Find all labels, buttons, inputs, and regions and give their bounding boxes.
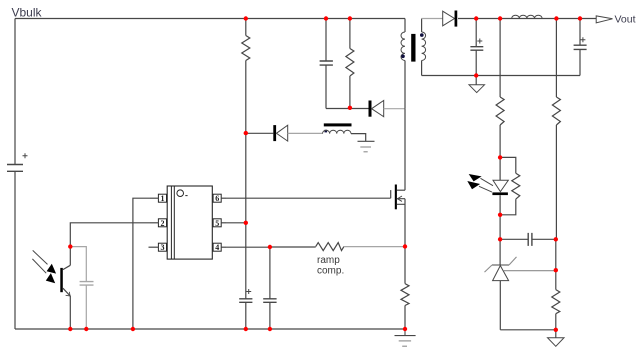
transformer T1 primary: [401, 19, 405, 109]
transformer T1 secondary: [420, 19, 443, 76]
node pin4 cap: [268, 245, 272, 249]
node bottom rail sense: [403, 327, 407, 331]
capacitor Cout1: [470, 19, 483, 76]
TL431 U3: [485, 239, 556, 329]
optocoupler U2 phototransistor: [32, 247, 70, 329]
wire LED to comp node: [499, 215, 501, 240]
node bottom rail cvcc: [244, 327, 248, 331]
wire pin2 to opto: [70, 223, 150, 247]
node bottom rail pin1: [131, 327, 135, 331]
wire TL431 anode bottom: [500, 329, 556, 331]
resistor Rsense: [401, 247, 409, 330]
diode Dout: [443, 11, 597, 27]
inductor Lout: [512, 15, 542, 18]
capacitor Cvcc: [239, 289, 252, 329]
ground primary main: [395, 329, 416, 346]
resistor Rsnub: [346, 19, 354, 109]
node bottom rail opto e: [68, 327, 72, 331]
node ramp right: [403, 244, 407, 248]
IC U1 pin 2 box: [150, 219, 167, 227]
wire drain vertical: [404, 109, 406, 191]
resistor Rstartup: [242, 19, 250, 134]
svg-text:3: 3: [161, 243, 165, 252]
transformer T1 core: [411, 34, 415, 62]
node bottom rail cpin4: [268, 327, 272, 331]
wire Vcc vertical low: [245, 223, 247, 299]
ground aux: [358, 141, 375, 152]
capacitor Ccomp: [500, 233, 556, 246]
node tl431 cathode: [498, 237, 502, 241]
capacitor Cbulk: [7, 153, 28, 171]
node top rail rsnub: [348, 16, 352, 20]
node snubber bottom: [348, 106, 352, 110]
node vout rail 3: [554, 16, 558, 20]
node vout rail 2: [498, 16, 502, 20]
opto LED U2: [467, 157, 508, 214]
diode D3 clamp: [370, 101, 405, 117]
node comp cap right: [554, 237, 558, 241]
node led bottom: [498, 213, 502, 217]
IC U1 body: [167, 186, 212, 259]
IC U1 pin 3 box: [149, 243, 167, 251]
node opto top: [68, 244, 72, 248]
wire Vcc vertical mid: [245, 133, 247, 223]
resistor Rled series upper: [496, 19, 504, 158]
wire secondary return rail: [422, 75, 580, 77]
MOSFET Q1: [391, 185, 405, 247]
resistor Rdiv upper: [552, 19, 560, 240]
wire left bulk vertical top: [14, 19, 16, 165]
svg-text:5: 5: [215, 219, 219, 228]
svg-text:comp.: comp.: [317, 266, 344, 277]
node pin5 vcc: [244, 221, 248, 225]
IC U1 pin 5 box: [213, 219, 226, 227]
node rdiv bottom: [554, 328, 558, 332]
svg-text:6: 6: [215, 194, 219, 203]
wire snubber bottom: [326, 108, 369, 110]
IC U1 pin 6 box: [213, 194, 226, 202]
wire pin1 to bottom rail: [133, 198, 150, 329]
svg-text:4: 4: [215, 243, 219, 252]
node vout rail 1: [474, 16, 478, 20]
svg-text:Vbulk: Vbulk: [12, 6, 43, 20]
ground sec triangle 2: [548, 330, 565, 347]
capacitor Csnub: [320, 19, 333, 109]
capacitor Copto: [70, 247, 93, 329]
svg-text:1: 1: [161, 194, 165, 203]
diode D2 aux rectifier: [246, 125, 323, 141]
node top rail vcc: [244, 16, 248, 20]
wire left bulk vertical bottom: [14, 171, 16, 329]
node aux diode: [244, 131, 248, 135]
node led top: [498, 155, 502, 159]
transformer T1 aux winding: [323, 123, 366, 141]
node top rail csnub: [324, 16, 328, 20]
svg-text:2: 2: [161, 219, 165, 228]
node bottom rail copto: [84, 327, 88, 331]
Vout arrow: [596, 16, 612, 23]
IC U1 pin 4 box: [213, 243, 226, 251]
node tl431 ref: [554, 268, 558, 272]
wire bottom primary rail: [15, 328, 405, 330]
capacitor Cout2: [574, 19, 587, 76]
ground sec triangle 1: [469, 76, 485, 93]
wire pin5 to vcc: [226, 222, 246, 224]
resistor Rdiv lower: [552, 239, 560, 329]
node sec return: [474, 73, 478, 77]
capacitor Cpin4: [263, 247, 276, 329]
label pin numbers: [161, 194, 220, 252]
wire pin4 to ramp: [226, 246, 316, 248]
resistor Rled parallel: [500, 157, 520, 214]
wire top primary rail: [15, 18, 405, 20]
node vout rail 4: [578, 16, 582, 20]
IC U1 pin 1 box: [150, 194, 167, 202]
wire pin6 to gate: [226, 197, 391, 199]
resistor Rramp: [316, 243, 405, 251]
svg-text:Vout: Vout: [615, 13, 636, 25]
